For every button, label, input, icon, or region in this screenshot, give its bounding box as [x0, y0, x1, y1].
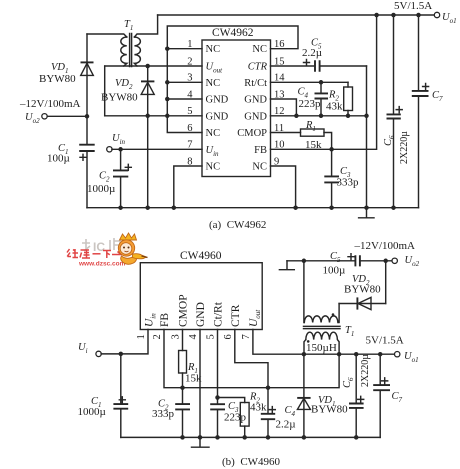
- svg-text:(b) CW4960: (b) CW4960: [222, 456, 281, 468]
- junction pin5 node (b): [215, 395, 220, 400]
- junction bus pin5 (a): [165, 114, 170, 119]
- svg-text:7: 7: [187, 140, 192, 151]
- wire pin13 (a): [271, 99, 297, 116]
- capacitor C1 1000u (b): [78, 354, 129, 438]
- svg-text:C5: C5: [330, 251, 341, 264]
- svg-text:2X220µ: 2X220µ: [360, 354, 371, 387]
- svg-text:Uin: Uin: [112, 133, 126, 146]
- capacitor C2 1000u (a): [87, 149, 131, 207]
- svg-text:3: 3: [187, 73, 192, 84]
- junction C2 bottom rail (a): [118, 205, 123, 210]
- junction C3 rail (a): [329, 205, 334, 210]
- wire pin1 Uin (b): [101, 330, 148, 354]
- node Uo1 terminal (b): [395, 352, 400, 357]
- transformer T1 (b): [304, 261, 355, 354]
- junction pin6 at FB line (b): [266, 385, 271, 390]
- capacitor C7 (a): [412, 15, 443, 208]
- junction C2 top (a): [118, 147, 123, 152]
- svg-text:GND: GND: [206, 111, 229, 122]
- svg-text:4: 4: [188, 334, 199, 340]
- IC right pin labels (a): [237, 44, 267, 172]
- svg-text:100µ: 100µ: [323, 265, 346, 277]
- junction bus pin1 (a): [165, 46, 170, 51]
- junction C7 rail top (a): [416, 13, 421, 18]
- junction bus pin3 (a): [165, 80, 170, 85]
- junction VD2 top (a): [145, 64, 150, 69]
- capacitor C3 333p (a): [324, 149, 359, 207]
- svg-text:6: 6: [187, 123, 192, 134]
- svg-text:16: 16: [274, 39, 285, 50]
- wire pin5 Ct/Rt (b): [217, 330, 219, 398]
- svg-text:CW4962: CW4962: [212, 27, 254, 39]
- ground symbol (b): [192, 437, 210, 447]
- svg-text:8: 8: [187, 156, 192, 167]
- svg-text:C7: C7: [432, 90, 443, 103]
- wire pin12 GND row (a): [271, 115, 367, 117]
- wire pin4 GND (b): [199, 330, 201, 438]
- IC U1 CW4962 body (a): [202, 40, 271, 177]
- svg-text:1: 1: [136, 334, 147, 339]
- junction R2 rail (b): [242, 435, 247, 440]
- svg-text:Uin: Uin: [206, 145, 220, 158]
- junction C2 rail (b): [180, 435, 185, 440]
- capacitor C5 2.2u (a): [271, 38, 367, 72]
- IC pin numbers rotated (b): [136, 334, 252, 340]
- wire outer frame and NC bus (a): [167, 26, 298, 133]
- svg-text:GND: GND: [244, 111, 267, 122]
- svg-text:2: 2: [152, 334, 163, 339]
- svg-text:NC: NC: [252, 44, 267, 55]
- red brand strokes: wei ku yi xia: [67, 249, 111, 258]
- wire 5V/1.5A output rail (a): [158, 14, 435, 16]
- wire bottom rail (b): [121, 436, 380, 438]
- svg-text:BYW80: BYW80: [101, 92, 138, 104]
- svg-text:333p: 333p: [152, 408, 175, 420]
- capacitor C4 2.2u (b): [261, 388, 296, 438]
- svg-text:CW4960: CW4960: [180, 250, 222, 262]
- svg-text:IC: IC: [93, 240, 105, 254]
- faint gray text: [82, 238, 122, 254]
- node Uo2 terminal (b): [392, 258, 397, 263]
- svg-text:1000µ: 1000µ: [87, 183, 115, 195]
- svg-text:CMOP: CMOP: [178, 294, 190, 327]
- svg-text:CMOP: CMOP: [237, 128, 267, 139]
- svg-text:2.2µ: 2.2µ: [302, 47, 322, 59]
- svg-text:4: 4: [187, 89, 193, 100]
- svg-text:–12V/100mA: –12V/100mA: [354, 240, 416, 252]
- junction T1 top winding left (b): [302, 259, 307, 264]
- diode VD2 (b): [339, 261, 386, 310]
- svg-text:T1: T1: [345, 325, 354, 338]
- junction pin9 rail (a): [293, 205, 298, 210]
- diode VD1 (a): [39, 34, 94, 116]
- junction C1 top (b): [119, 352, 124, 357]
- wire pin2 FB line (b): [164, 330, 339, 388]
- svg-text:Uout: Uout: [248, 309, 262, 327]
- diode VD2 (a): [101, 66, 154, 208]
- svg-text:1000µ: 1000µ: [78, 406, 106, 418]
- junction VD2 at -12V node (b): [383, 259, 388, 264]
- junction C3 rail (b): [215, 435, 220, 440]
- wire C5 to ground rail (a): [366, 66, 368, 208]
- svg-text:GND: GND: [206, 95, 229, 106]
- junction C7 rail top (b): [378, 352, 383, 357]
- junction C5 drop at pin12 row (a): [364, 114, 369, 119]
- junction C5 drop at rail (a): [364, 205, 369, 210]
- svg-text:Uout: Uout: [206, 62, 224, 75]
- node Uin terminal (a): [107, 147, 112, 152]
- wire pin10 FB feedback (a): [271, 15, 377, 149]
- wire ground row / pin5 (a): [105, 115, 202, 117]
- wire pin8 (a): [174, 166, 202, 208]
- svg-text:NC: NC: [206, 162, 221, 173]
- svg-text:Rt/Ct: Rt/Ct: [244, 78, 267, 89]
- svg-text:T1: T1: [124, 19, 133, 32]
- wire pin14 Rt/Ct (a): [271, 81, 349, 83]
- capacitor C4 223p (a): [298, 82, 329, 116]
- junction R2 bottom (a): [346, 114, 351, 119]
- svg-text:Uin: Uin: [144, 313, 158, 327]
- svg-text:C6: C6: [342, 377, 355, 388]
- svg-text:Ui: Ui: [78, 342, 88, 355]
- svg-text:6: 6: [223, 334, 234, 339]
- junction C4 bottom (a): [319, 114, 324, 119]
- wire pin5 to R2 (b): [218, 398, 245, 403]
- svg-text:2X220µ: 2X220µ: [399, 131, 410, 164]
- node Uo1 terminal (a): [434, 12, 439, 17]
- svg-text:43k: 43k: [250, 402, 267, 414]
- svg-text:GND: GND: [244, 95, 267, 106]
- junction VD2 bottom rail (a): [145, 205, 150, 210]
- svg-text:BYW80: BYW80: [39, 73, 76, 85]
- wire pin3 (a): [167, 81, 202, 83]
- svg-text:C2: C2: [99, 171, 110, 184]
- junction C4 rail (b): [266, 435, 271, 440]
- wire pin4 (a): [167, 98, 202, 100]
- ground symbol top (b): [279, 261, 294, 270]
- svg-text:43k: 43k: [326, 101, 343, 113]
- svg-text:Uo1: Uo1: [442, 12, 457, 25]
- wire 5V output rail (b): [304, 353, 395, 355]
- svg-text:www.dzsc.com: www.dzsc.com: [78, 261, 126, 268]
- node Ui terminal (b): [96, 351, 101, 356]
- svg-text:333p: 333p: [337, 177, 360, 189]
- wire T1 bottom lead (a): [105, 65, 148, 67]
- svg-text:223p: 223p: [224, 412, 247, 424]
- junction Uout node (b): [302, 352, 307, 357]
- diode VD1 (b): [297, 354, 348, 437]
- IC pin labels rotated (b): [144, 294, 262, 327]
- junction R1 bottom FB line (b): [180, 385, 185, 390]
- junction C6 rail top (b): [354, 352, 359, 357]
- wire pin1 (a): [167, 48, 202, 50]
- svg-text:2.2µ: 2.2µ: [276, 419, 296, 431]
- svg-text:NC: NC: [206, 128, 221, 139]
- capacitor C3 223p (b): [210, 398, 246, 438]
- wire pin7 Uin (a): [112, 148, 202, 150]
- capacitor C6 2x220u (a): [383, 15, 410, 208]
- wire Uo2 to VD1/C1 (a): [47, 115, 87, 117]
- junction C6 rail bottom (b): [354, 435, 359, 440]
- svg-text:Uo1: Uo1: [404, 351, 419, 364]
- mascot: [118, 233, 147, 264]
- svg-text:VD2: VD2: [115, 78, 133, 91]
- svg-text:C4: C4: [285, 405, 296, 418]
- junction R1/C3 at FB (a): [329, 147, 334, 152]
- resistor R1 15k (a): [271, 120, 332, 151]
- resistor R1 15k (b): [179, 330, 202, 404]
- svg-text:CTR: CTR: [230, 304, 242, 327]
- svg-text:7: 7: [241, 334, 252, 339]
- capacitor C5 100u (b): [323, 251, 393, 277]
- svg-text:Uo2: Uo2: [25, 112, 40, 125]
- wire bottom ground rail (a): [87, 207, 419, 209]
- junction pin13 drop (a): [294, 114, 299, 119]
- svg-text:150µH: 150µH: [306, 342, 337, 354]
- node Uo2 terminal (a): [42, 114, 47, 119]
- svg-text:FB: FB: [254, 145, 267, 156]
- junction VD1 rail (b): [302, 435, 307, 440]
- svg-text:C7: C7: [392, 391, 403, 404]
- svg-text:CTR: CTR: [248, 62, 268, 73]
- ground symbol (a): [359, 208, 374, 218]
- junction bus pin4 (a): [165, 97, 170, 102]
- junction pin8 rail (a): [172, 205, 177, 210]
- svg-text:5: 5: [187, 106, 192, 117]
- junction VD1-C1 (a): [85, 114, 90, 119]
- svg-text:NC: NC: [206, 44, 221, 55]
- svg-text:BYW80: BYW80: [311, 404, 348, 416]
- transformer T1 (a): [87, 15, 158, 67]
- capacitor C2 333p (b): [152, 399, 190, 438]
- junction VD2 ground row (a): [145, 114, 150, 119]
- svg-text:GND: GND: [195, 302, 207, 327]
- wire pin6 CTR (b): [235, 330, 268, 388]
- junction C6 rail top (a): [391, 13, 396, 18]
- junction C4 top (a): [319, 80, 324, 85]
- junction C6 rail bottom (a): [391, 205, 396, 210]
- wire pin7 Uout (b): [253, 330, 304, 355]
- wire pin9 (a): [271, 166, 296, 208]
- resistor R2 43k (a): [326, 82, 353, 116]
- capacitor C6 2x220u (b): [342, 354, 371, 438]
- svg-text:100µ: 100µ: [47, 153, 70, 165]
- svg-text:–12V/100mA: –12V/100mA: [19, 98, 81, 110]
- svg-text:R1: R1: [305, 120, 316, 133]
- svg-text:1: 1: [187, 39, 192, 50]
- svg-text:BYW80: BYW80: [344, 284, 381, 296]
- wire T1 primary bottom drop (a): [104, 66, 106, 116]
- svg-text:5: 5: [206, 334, 217, 339]
- svg-text:NC: NC: [252, 162, 267, 173]
- svg-text:Uo2: Uo2: [405, 255, 420, 268]
- IC left pin numbers (a): [187, 39, 193, 167]
- wire C5 row / -12V output (b): [287, 260, 355, 262]
- svg-text:NC: NC: [206, 78, 221, 89]
- capacitor C7 (b): [373, 354, 402, 437]
- IC U2 CW4960 body (b): [140, 263, 262, 330]
- IC left pin labels (a): [206, 44, 229, 172]
- svg-text:(a) CW4962: (a) CW4962: [209, 219, 266, 231]
- resistor R2 43k (b): [240, 392, 267, 438]
- svg-text:223p: 223p: [299, 98, 322, 110]
- junction FB rail (a): [374, 13, 379, 18]
- wire pin2 Uout (a): [148, 65, 202, 67]
- svg-text:3: 3: [171, 334, 182, 339]
- svg-text:5V/1.5A: 5V/1.5A: [394, 0, 432, 12]
- svg-text:2: 2: [187, 56, 192, 67]
- capacitor C1 100u (a): [47, 116, 95, 207]
- svg-text:5V/1.5A: 5V/1.5A: [366, 335, 404, 347]
- svg-text:Ct/Rt: Ct/Rt: [213, 301, 225, 327]
- IC right pin numbers (a): [274, 39, 285, 167]
- junction inductor right at rail (b): [337, 352, 342, 357]
- junction pin4 rail (b): [198, 435, 203, 440]
- svg-text:FB: FB: [159, 313, 171, 327]
